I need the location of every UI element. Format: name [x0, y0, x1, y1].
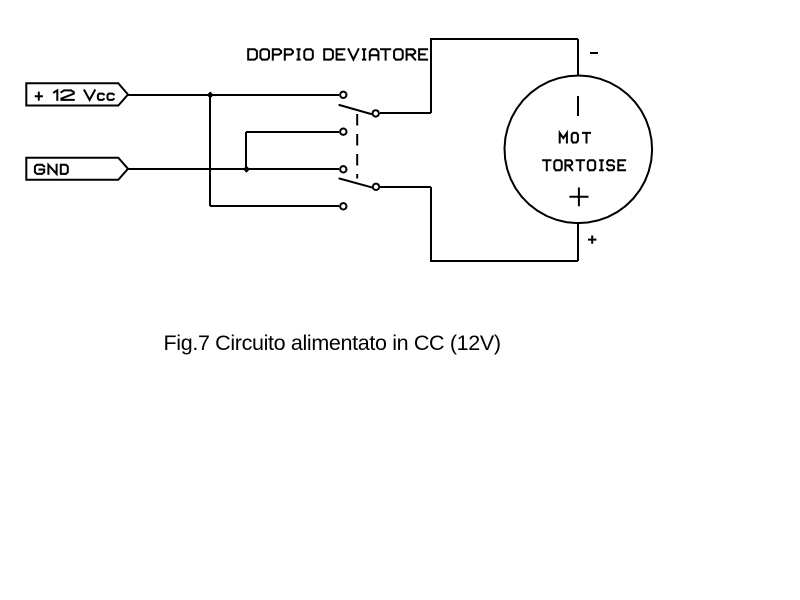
wire: +12Vcc feed to switch pole 1 [128, 94, 339, 96]
wire: motor top lead [577, 39, 579, 76]
label: GND [35, 165, 68, 174]
switch common contact B [373, 184, 379, 190]
switch DPDT pole contact 3 [340, 166, 346, 172]
wire: GND feed to switch pole 3 [128, 168, 339, 170]
switch common contact A [373, 110, 379, 116]
label: MOT [560, 133, 590, 143]
wire: branch to switch pole 4 [210, 205, 339, 207]
terminal label plus (bottom) [588, 236, 596, 244]
input flag +12Vcc [26, 83, 128, 105]
label: + 12 Vcc [36, 90, 114, 100]
wire: top run to motor [431, 38, 578, 40]
switch DPDT pole contact 2 [340, 129, 346, 135]
wire: left downcomer [430, 187, 432, 262]
terminal label minus (top) [590, 52, 598, 54]
motor M1 body (circle) [505, 76, 653, 224]
switch arm A [339, 105, 371, 114]
switch mechanical link (dashed) [356, 114, 358, 179]
wire: vertical branch from GND node [245, 132, 247, 170]
label: TORTOISE [543, 160, 625, 170]
switch DPDT pole contact 4 [340, 203, 346, 209]
label: DOPPIO DEVIATORE [248, 49, 427, 59]
wire: motor bottom lead [577, 222, 579, 261]
motor polarity bar (minus, inside top) [577, 96, 579, 116]
wire: branch to switch pole 2 [246, 131, 339, 133]
switch arm B [339, 179, 371, 188]
wire: vertical branch from +12Vcc node [209, 94, 211, 206]
wire: switch common B to downcomer [380, 186, 431, 188]
motor polarity plus (inside bottom) [569, 188, 588, 207]
wire: bottom run to motor [431, 260, 578, 262]
input flag GND [26, 158, 128, 180]
switch DPDT pole contact 1 [340, 92, 346, 98]
svg-text:Fig.7 Circuito alimentato in C: Fig.7 Circuito alimentato in CC (12V) [164, 331, 501, 355]
wire: left riser up [430, 38, 432, 113]
junction node: GND branch [243, 166, 250, 173]
junction node: +12Vcc branch [207, 92, 214, 99]
wire: switch common A to riser [380, 112, 431, 114]
